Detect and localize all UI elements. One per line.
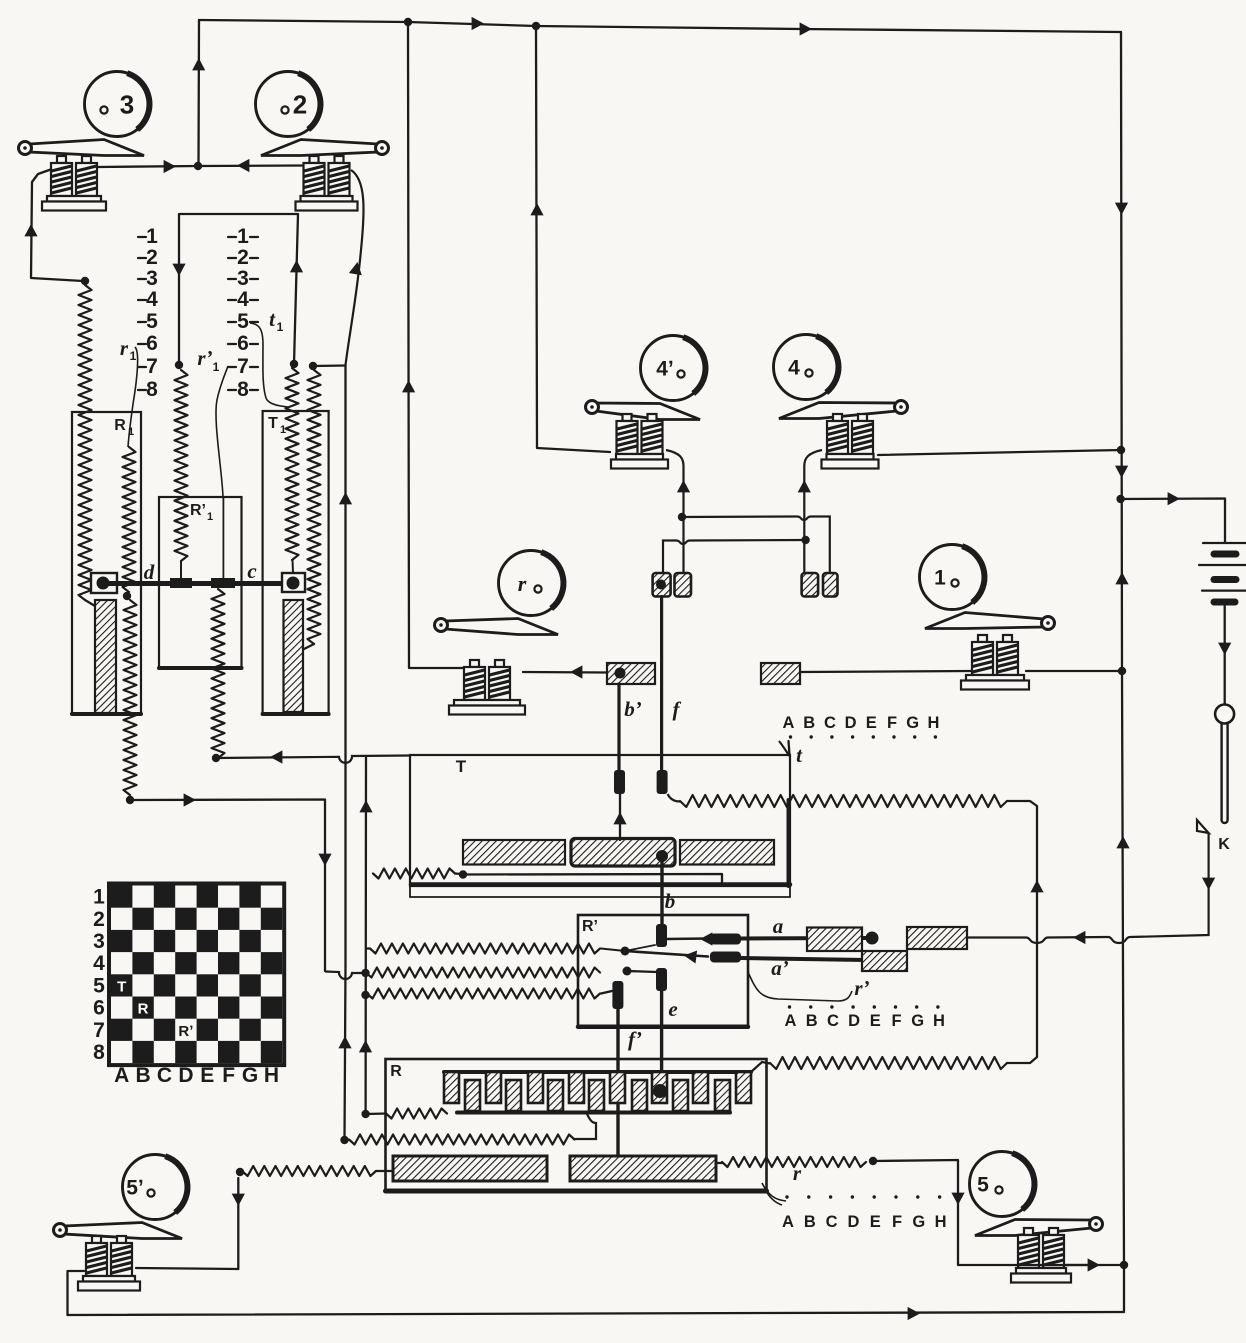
relay 5' xyxy=(54,1155,188,1291)
resistor bar2 to relay5 xyxy=(716,1157,866,1167)
svg-text:8: 8 xyxy=(237,378,249,401)
resistor row2 to R' box xyxy=(366,968,600,978)
contact letters row r (A-H) xyxy=(782,1195,947,1231)
node relay23 junction xyxy=(194,162,202,170)
wire a' link to b pad xyxy=(625,945,655,951)
svg-text:K: K xyxy=(1218,836,1230,853)
wire row2 to e pad xyxy=(627,971,657,972)
wire selector frame arrow up xyxy=(290,260,303,272)
svg-text:G: G xyxy=(242,1064,258,1087)
wire f vertical xyxy=(660,597,663,773)
svg-text:R: R xyxy=(390,1063,402,1080)
svg-text:1: 1 xyxy=(934,567,946,590)
svg-text:F: F xyxy=(887,714,897,732)
svg-text:D: D xyxy=(847,1213,859,1231)
svg-text:r: r xyxy=(518,571,527,596)
node right rail relay5 tap xyxy=(1120,1261,1128,1269)
wire T1 right hook xyxy=(304,644,314,649)
wire bar2 to relay 5 xyxy=(873,1160,1090,1265)
svg-text:E: E xyxy=(866,714,877,732)
wire right vertical rail xyxy=(1121,32,1124,1311)
wire relay 4 coil drop xyxy=(804,450,822,573)
wire row3 to f' pad xyxy=(601,991,612,994)
pad a inner xyxy=(710,934,741,945)
wire node to relay2 xyxy=(198,164,305,167)
svg-text:1: 1 xyxy=(93,886,105,909)
svg-text:2: 2 xyxy=(293,89,307,119)
node row2 wiper xyxy=(623,967,632,976)
wire relay5' coil to riser xyxy=(136,1178,238,1269)
bar d-c (contact rail) xyxy=(103,581,293,586)
wire b' vertical xyxy=(617,684,620,772)
wire junction up arrow xyxy=(192,58,205,70)
svg-text:3: 3 xyxy=(120,89,134,119)
node a' wiper xyxy=(621,947,630,956)
wire relay3 to node xyxy=(98,166,198,167)
wire relay3 node arrow xyxy=(164,160,176,173)
svg-text:bʼ: bʼ xyxy=(624,697,642,721)
wire R1 bottom to vertical C xyxy=(130,800,325,972)
svg-text:a: a xyxy=(773,914,784,938)
wire b' riser in T box xyxy=(619,794,621,840)
wire relay4 coil to right rail xyxy=(878,450,1121,455)
wire f branch arrow xyxy=(1030,880,1043,892)
svg-text:d: d xyxy=(144,560,155,584)
wire vertical B arrow low xyxy=(359,1040,372,1052)
box R'1 xyxy=(159,497,242,668)
node right rail battery tap xyxy=(1117,446,1125,454)
svg-text:H: H xyxy=(927,714,939,732)
wire right rail arrow up xyxy=(1115,572,1128,584)
svg-text:H: H xyxy=(933,1012,945,1030)
bar R wiper 1 (hatched) xyxy=(393,1156,547,1181)
wire b' arrow xyxy=(570,665,582,678)
svg-text:1: 1 xyxy=(237,225,249,248)
pennant (K contact) xyxy=(1197,820,1209,833)
wire K branch horizontal xyxy=(967,833,1209,943)
relay 4' xyxy=(586,336,706,469)
svg-text:1: 1 xyxy=(128,426,134,438)
wire cross line1 xyxy=(682,517,830,574)
wire vertical C arrow down xyxy=(318,854,331,866)
pad a upper (hatched) xyxy=(807,928,862,952)
box T1 xyxy=(263,411,329,714)
wire relay5' base to bottom bus xyxy=(68,1271,85,1315)
wire a' to pad xyxy=(625,951,708,957)
wire bottom bus arrow xyxy=(908,1307,920,1320)
svg-text:Rʼ: Rʼ xyxy=(178,1023,193,1040)
wire junction up to top bus xyxy=(197,20,200,166)
node R'1 bottom xyxy=(212,754,220,762)
wire bottom bus xyxy=(68,1312,1125,1315)
resistor R1 lower winding xyxy=(124,600,137,795)
wire relay2 coil diagonal xyxy=(346,170,364,365)
svg-text:2: 2 xyxy=(146,246,158,269)
svg-text:T: T xyxy=(117,978,126,995)
wire vertical C to row2 xyxy=(325,972,364,980)
svg-text:F: F xyxy=(892,1213,902,1231)
wire selector frame xyxy=(179,214,298,365)
resistor R'1 upper winding xyxy=(175,370,188,561)
pad f' (R' box) xyxy=(612,981,623,1009)
svg-text:3: 3 xyxy=(93,930,105,953)
node r1 wiper xyxy=(123,592,131,600)
wire vertical B arrow xyxy=(359,800,372,812)
svg-text:R: R xyxy=(114,417,126,434)
node selector right bottom xyxy=(290,360,298,368)
pad P4 xyxy=(823,573,838,597)
pad K branch (hatched) xyxy=(907,927,967,949)
bar T wiper A (hatched) xyxy=(463,840,565,865)
bar R wiper 2 (hatched) xyxy=(570,1156,716,1181)
wire K-tap to battery xyxy=(1121,499,1225,543)
node vertical A R feed xyxy=(340,1136,348,1144)
svg-text:6: 6 xyxy=(237,332,249,355)
svg-text:C: C xyxy=(824,714,836,732)
svg-text:B: B xyxy=(136,1064,151,1087)
wire battery to key xyxy=(1224,606,1226,705)
node top bus mid xyxy=(532,22,540,30)
wire relay1 coil to right rail xyxy=(1026,670,1122,672)
svg-text:5ʼ: 5ʼ xyxy=(126,1177,144,1200)
node bar2 out xyxy=(869,1157,877,1165)
contact box c xyxy=(282,573,305,592)
svg-text:E: E xyxy=(200,1064,214,1087)
svg-text:D: D xyxy=(845,714,857,732)
bar R1 armature (hatched) xyxy=(95,600,116,713)
relay 2 xyxy=(256,72,389,211)
wire top to relay 4' coil xyxy=(536,26,610,452)
svg-text:5: 5 xyxy=(977,1174,989,1197)
resistor bar1 feed xyxy=(242,1166,393,1176)
pad P1 (f) xyxy=(653,573,671,597)
pad c (R'1) xyxy=(211,578,235,588)
wire b' riser arrow xyxy=(613,812,626,824)
wire right rail arrow down 2 xyxy=(1115,466,1128,478)
svg-text:A: A xyxy=(782,1213,794,1231)
bar T wiper C (hatched) xyxy=(680,840,774,865)
svg-text:F: F xyxy=(222,1064,235,1087)
box R' xyxy=(578,915,748,1027)
svg-text:T: T xyxy=(268,415,278,432)
svg-text:8: 8 xyxy=(146,378,158,401)
pad e (R' box) xyxy=(656,968,667,991)
svg-text:1: 1 xyxy=(280,424,286,436)
svg-text:G: G xyxy=(912,1213,925,1231)
svg-text:7: 7 xyxy=(237,355,249,378)
wire right rail arrow down xyxy=(1115,203,1128,215)
wire top bus arrow 2 xyxy=(800,22,812,35)
svg-text:r: r xyxy=(120,336,129,360)
svg-text:4ʼ: 4ʼ xyxy=(656,358,674,381)
svg-text:D: D xyxy=(848,1012,860,1030)
svg-text:A: A xyxy=(783,714,795,732)
selector contacts ladder 2 (digits 1-8) xyxy=(228,225,258,401)
relay 4 xyxy=(774,335,908,469)
label r' with leader xyxy=(748,972,870,1001)
resistor comb top feed xyxy=(770,1057,1007,1069)
svg-text:6: 6 xyxy=(146,332,158,355)
resistor R1 left winding xyxy=(79,285,92,600)
wire a' arrow xyxy=(684,951,697,964)
relay 1 xyxy=(920,545,1055,690)
wire a' diagonal xyxy=(601,949,625,952)
svg-text:B: B xyxy=(803,714,815,732)
battery B xyxy=(1199,543,1246,602)
pad a' lower (hatched) xyxy=(862,951,907,971)
wire top bus xyxy=(199,20,1121,32)
box R1 xyxy=(72,412,141,714)
resistor R chain long xyxy=(349,1135,575,1145)
resistor row3 to R' box xyxy=(367,989,600,999)
wire battery feed arrow xyxy=(1168,492,1180,505)
svg-text:5: 5 xyxy=(93,974,105,997)
wire letters to t corner xyxy=(789,741,790,755)
wire relay3 coil to R1 chain xyxy=(31,169,83,281)
label r with leader xyxy=(762,1161,802,1205)
wire a to pad xyxy=(666,937,708,940)
pad P3 xyxy=(802,573,819,597)
wire vertical B xyxy=(364,756,367,1114)
svg-text:7: 7 xyxy=(93,1019,105,1042)
svg-text:6: 6 xyxy=(93,997,105,1020)
comb contact bank (R box) xyxy=(444,1062,770,1139)
node R1 top xyxy=(81,277,89,285)
pad relay1 (hatched) xyxy=(761,663,800,684)
wire R1 bottom arrow xyxy=(184,793,196,806)
svg-text:2: 2 xyxy=(237,246,249,269)
node comb feed xyxy=(361,1110,369,1118)
wire a' thick xyxy=(741,958,866,960)
wire cross line2 xyxy=(663,540,806,573)
relay 3 (bell + electromagnet) xyxy=(19,72,150,211)
svg-text:Rʼ: Rʼ xyxy=(582,918,598,935)
wire a arrow xyxy=(700,932,712,945)
wire relay 4' coil drop xyxy=(666,450,684,573)
node right rail relay1 tap xyxy=(1118,667,1126,675)
svg-text:e: e xyxy=(668,997,677,1021)
svg-text:R: R xyxy=(138,1001,149,1018)
pad f lower xyxy=(657,770,668,794)
svg-text:C: C xyxy=(157,1064,172,1087)
wire 4' drop arrow xyxy=(677,480,690,492)
svg-text:c: c xyxy=(247,559,257,583)
svg-text:Rʼ: Rʼ xyxy=(190,502,206,519)
wire vertical A arrow up low xyxy=(338,1036,351,1048)
pad b' lower xyxy=(614,770,625,794)
resistor R'1 lower winding xyxy=(212,589,225,758)
svg-text:1: 1 xyxy=(213,360,220,374)
wire relay2 node arrow xyxy=(237,159,249,172)
resistor T box left tail xyxy=(373,869,461,879)
node b on wiper B xyxy=(656,850,668,862)
svg-text:3: 3 xyxy=(146,267,158,290)
pad a' inner xyxy=(710,952,741,963)
node T1 right top xyxy=(309,362,317,370)
svg-text:b: b xyxy=(665,889,676,913)
wire R'1 bottom to T box xyxy=(216,756,410,763)
wire relay5 coil link xyxy=(1066,1264,1123,1266)
svg-text:4: 4 xyxy=(237,288,249,311)
wire selector frame arrow down xyxy=(172,264,185,276)
svg-text:A: A xyxy=(785,1012,797,1030)
node row2 feed xyxy=(361,969,369,977)
wire top bus arrow 1 xyxy=(472,17,484,30)
svg-text:C: C xyxy=(826,1213,838,1231)
contact letters row r' (A-H) xyxy=(785,1005,945,1030)
node e on comb xyxy=(653,1084,667,1098)
svg-text:C: C xyxy=(827,1012,839,1030)
svg-text:1: 1 xyxy=(146,225,158,248)
resistor T1 right winding xyxy=(308,370,321,644)
contact box d xyxy=(91,573,117,593)
svg-text:E: E xyxy=(870,1213,881,1231)
wire vertical A low xyxy=(345,966,346,1140)
svg-text:G: G xyxy=(906,714,919,732)
label r1 with leader xyxy=(120,336,138,447)
svg-text:aʼ: aʼ xyxy=(771,956,789,980)
wire r'1 leader drop xyxy=(222,497,224,580)
wire b vertical xyxy=(660,856,663,926)
node cross line2 xyxy=(801,536,809,544)
pad P2 xyxy=(675,573,692,597)
resistor row1 to R' box xyxy=(366,944,600,954)
node f' on bar xyxy=(611,1159,625,1173)
node top bus left xyxy=(404,18,412,26)
node selector left bottom xyxy=(175,361,183,369)
svg-text:8: 8 xyxy=(93,1041,105,1064)
node a xyxy=(866,932,879,945)
svg-text:1: 1 xyxy=(130,349,137,363)
svg-text:B: B xyxy=(806,1012,818,1030)
svg-text:rʼ: rʼ xyxy=(854,976,869,1000)
svg-text:1: 1 xyxy=(277,320,284,334)
resistor comb lower feed xyxy=(366,1109,447,1119)
svg-text:4: 4 xyxy=(146,288,158,311)
wire left rail to relay r coil xyxy=(408,22,464,668)
pad b' (hatched) xyxy=(607,663,655,684)
svg-text:D: D xyxy=(178,1064,193,1087)
pad d (R'1) xyxy=(170,578,192,588)
selector contacts ladder 1 (digits 1-8) xyxy=(138,225,158,401)
svg-text:3: 3 xyxy=(237,267,249,290)
wire relay5 arrow right xyxy=(1088,1258,1100,1271)
wire K branch arrow down xyxy=(1202,878,1215,890)
node bar1 feed xyxy=(236,1168,244,1176)
svg-text:4: 4 xyxy=(93,952,105,975)
wire R'1 upper stub xyxy=(180,561,182,579)
wire e vertical xyxy=(660,991,663,1085)
svg-text:1: 1 xyxy=(207,511,213,523)
contact dot d xyxy=(97,577,110,590)
svg-text:rʼ: rʼ xyxy=(197,346,212,370)
resistor R1 right winding (r1) xyxy=(123,447,136,592)
wire left rail arrow up xyxy=(402,380,415,392)
svg-text:F: F xyxy=(891,1012,901,1030)
wire relay5' riser arrow xyxy=(232,1194,245,1206)
wire relay3 drop arrow up xyxy=(24,224,37,236)
svg-text:G: G xyxy=(911,1012,924,1030)
resistor f to K branch xyxy=(668,794,1007,807)
svg-text:A: A xyxy=(114,1064,129,1087)
svg-text:4: 4 xyxy=(788,357,800,380)
box T xyxy=(410,755,790,897)
svg-text:r: r xyxy=(793,1161,802,1185)
svg-text:fʼ: fʼ xyxy=(628,1027,642,1051)
wire vertical A arrow up xyxy=(339,492,352,504)
node T wiper bus xyxy=(459,870,467,878)
resistor T1 left winding xyxy=(286,368,299,560)
bar T wiper B (hatched) xyxy=(571,839,675,867)
wire relay2 diagonal arrow xyxy=(349,262,362,275)
wire f branch corner xyxy=(1007,801,1037,1063)
label t1 with leader xyxy=(250,307,288,407)
wire K branch arrow xyxy=(1073,931,1085,944)
wire battery arrow down xyxy=(1218,643,1231,655)
wire t corner leader xyxy=(779,741,790,756)
contact dot c xyxy=(287,577,300,590)
wire right rail arrow up 2 xyxy=(1116,836,1129,848)
node R1 resistor bottom xyxy=(126,796,134,804)
wire 4' feed arrow xyxy=(530,203,543,215)
wire T wiper bus xyxy=(463,874,722,884)
pad b (R' box) xyxy=(656,924,667,947)
relay 5 xyxy=(970,1152,1103,1283)
svg-text:5: 5 xyxy=(237,310,249,333)
svg-text:5: 5 xyxy=(146,310,158,333)
wire pad to relay 1 coil xyxy=(800,671,972,672)
svg-text:E: E xyxy=(870,1012,881,1030)
key K plunger xyxy=(1215,705,1234,824)
bar T1 armature (hatched) xyxy=(284,600,304,712)
svg-text:7: 7 xyxy=(146,355,158,378)
contact letters row t (A-H) xyxy=(783,714,940,739)
wire 4 drop arrow xyxy=(798,480,811,492)
wire T1 left stub xyxy=(292,560,295,573)
node row3 feed xyxy=(361,991,369,999)
wire node to vertical A xyxy=(313,364,346,367)
svg-text:H: H xyxy=(264,1064,279,1087)
label r'1 with leader xyxy=(197,346,228,497)
node cross line1 xyxy=(678,513,686,521)
svg-text:B: B xyxy=(804,1213,816,1231)
wire vertical A mid xyxy=(344,366,346,967)
node a' xyxy=(866,954,879,967)
wire R'1 bottom arrow xyxy=(270,750,282,763)
wire relay r coil to pad b' xyxy=(523,671,607,674)
svg-text:2: 2 xyxy=(93,908,105,931)
relay r xyxy=(435,551,564,715)
wire a thick xyxy=(741,936,866,941)
wire f' vertical xyxy=(616,1009,619,1160)
wire R1 left hook xyxy=(85,600,95,606)
chessboard xyxy=(93,884,284,1088)
svg-text:H: H xyxy=(935,1213,947,1231)
wire relay5 arrow down xyxy=(951,1193,964,1205)
node right rail K tap xyxy=(1116,495,1124,503)
box R xyxy=(386,1059,767,1191)
svg-text:T: T xyxy=(456,757,467,776)
